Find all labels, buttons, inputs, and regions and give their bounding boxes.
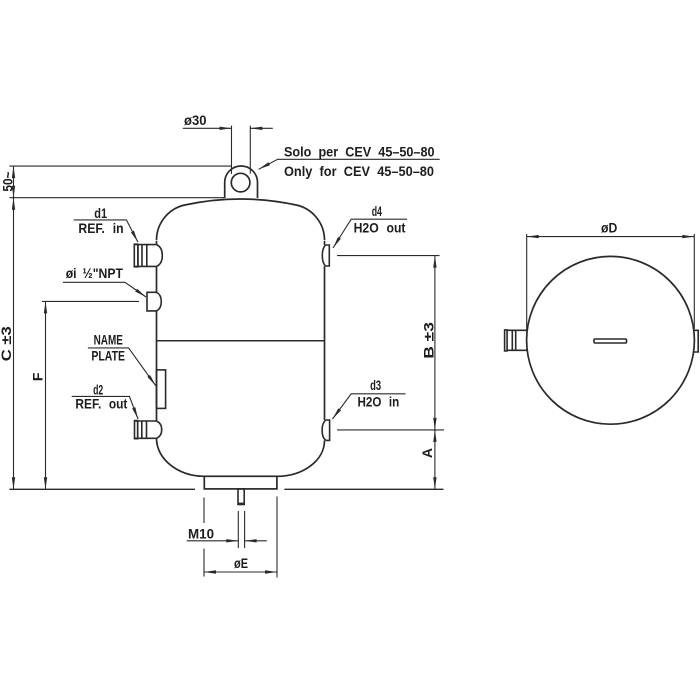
svg-text:Only for CEV 45–50–80: Only for CEV 45–50–80 — [284, 163, 434, 179]
svg-text:A: A — [419, 448, 435, 458]
svg-text:Solo per CEV 45–50–80: Solo per CEV 45–50–80 — [284, 144, 435, 160]
vessel bottom head left — [157, 439, 205, 477]
svg-text:d3: d3 — [370, 377, 381, 393]
fitting øi 1/2"NPT — [147, 292, 161, 311]
leader NPT — [63, 282, 146, 297]
vessel top head (dome) — [156, 199, 324, 240]
fitting d1 REF. in — [134, 244, 162, 267]
B dimension line — [434, 256, 436, 430]
leader Solo/Only note — [259, 159, 440, 169]
vessel right wall — [324, 241, 326, 441]
leader d1 — [74, 220, 138, 242]
F extension line — [42, 300, 139, 302]
øE dimension line — [204, 571, 277, 573]
vessel bottom head right — [277, 441, 325, 477]
C dimension line — [13, 198, 15, 490]
øD dimension line — [527, 236, 695, 238]
leader name plate — [88, 348, 156, 386]
dimension ø30 line — [183, 127, 273, 129]
svg-text:REF. out: REF. out — [75, 396, 127, 412]
leader d3 — [333, 394, 406, 419]
leader d2 — [72, 396, 138, 419]
weld seam line — [157, 340, 325, 342]
svg-text:øi ½"NPT: øi ½"NPT — [66, 265, 124, 281]
svg-text:PLATE: PLATE — [91, 348, 125, 364]
end view left fitting — [505, 330, 528, 351]
svg-text:H2O in: H2O in — [358, 394, 400, 410]
svg-text:NAME: NAME — [94, 331, 123, 347]
svg-text:REF. in: REF. in — [78, 220, 123, 236]
øD extension lines — [527, 234, 695, 330]
end view handle slot — [594, 339, 627, 343]
50~ dimension line — [13, 166, 15, 198]
lug hole ø30 — [231, 173, 250, 192]
lifting lug — [225, 166, 258, 198]
svg-text:B ±3: B ±3 — [421, 322, 437, 359]
svg-text:øE: øE — [234, 555, 248, 571]
svg-text:M10: M10 — [188, 526, 214, 542]
F dimension line — [45, 301, 47, 489]
end view shell circle — [527, 256, 695, 424]
svg-text:H2O out: H2O out — [354, 220, 406, 236]
øE extension lines — [204, 497, 277, 578]
svg-text:C ±3: C ±3 — [0, 326, 14, 361]
M10 stud — [238, 489, 244, 505]
svg-text:øD: øD — [601, 220, 617, 236]
svg-text:d1: d1 — [94, 205, 107, 221]
vessel left wall — [156, 241, 158, 439]
50~ extension lines — [9, 166, 231, 198]
svg-text:d4: d4 — [372, 203, 382, 219]
M10 extension lines — [238, 511, 244, 548]
fitting d2 REF. out — [135, 421, 162, 439]
svg-text:50~: 50~ — [0, 172, 16, 192]
fitting d3 H2O in — [322, 420, 330, 440]
dimension ø30 extension lines — [232, 126, 251, 174]
name plate — [157, 370, 166, 409]
svg-text:ø30: ø30 — [184, 112, 207, 128]
ground baseline — [9, 488, 443, 490]
svg-text:F: F — [30, 372, 46, 381]
end view right fitting — [694, 330, 698, 352]
leader d4 — [333, 219, 407, 248]
M10 dimension line — [187, 540, 267, 542]
B extension lines — [337, 256, 444, 430]
A dimension line — [434, 430, 436, 489]
fitting d4 H2O out — [322, 245, 329, 266]
base skirt ring — [204, 476, 277, 489]
arrowheads — [12, 127, 695, 574]
